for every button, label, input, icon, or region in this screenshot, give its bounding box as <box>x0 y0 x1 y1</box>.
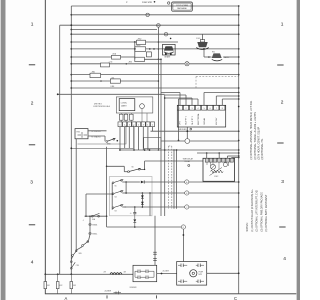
wire rung 2 <box>71 14 238 16</box>
junction on right bus <box>238 192 240 194</box>
svg-text:HS5: HS5 <box>77 131 80 133</box>
svg-text:2: 2 <box>152 125 153 127</box>
svg-text:1: 1 <box>133 125 134 127</box>
svg-text:FU3: FU3 <box>73 285 76 287</box>
wire rung 5 <box>71 29 157 31</box>
junction on left bus <box>70 41 72 43</box>
contact LS5A <box>112 55 121 59</box>
contact +HS4 <box>135 47 146 52</box>
wire relay t6 riser <box>227 156 229 158</box>
wire chain v1 <box>89 216 91 223</box>
junction on right bus <box>238 33 240 35</box>
svg-text:(1) OUTPUT DELAY (2 SECONDS): (1) OUTPUT DELAY (2 SECONDS) ALL <box>251 188 254 231</box>
junction on right bus <box>238 48 240 50</box>
svg-text:PUMP MTR: PUMP MTR <box>142 2 153 4</box>
junction on rung 150 <box>144 149 146 151</box>
terminal dot <box>170 38 172 40</box>
contact +HS2 <box>137 40 146 44</box>
junction <box>144 169 145 170</box>
wire motor link <box>157 273 177 275</box>
wire TB1 pin 6 drop <box>142 127 144 150</box>
zone tick dash left margin <box>29 144 35 146</box>
junction on right bus <box>238 130 240 132</box>
junction <box>142 206 144 208</box>
wire chain v4 <box>76 247 82 251</box>
junction on right bus <box>238 74 240 76</box>
wire riser x161 <box>160 59 162 216</box>
junction <box>206 152 208 154</box>
contact LS6 <box>110 79 120 83</box>
right page-edge shadow band (scan artifact) <box>297 0 300 300</box>
wire switch stack left link <box>111 183 113 210</box>
junction on right bus <box>238 87 240 89</box>
wire TB2 pin3 riser <box>191 98 193 105</box>
wire riser x164 <box>164 95 166 216</box>
wire rung 10b <box>110 63 185 65</box>
svg-text:2: 2 <box>138 125 139 127</box>
logic assy box U1 <box>119 99 135 111</box>
connector bubble 11 <box>164 32 168 36</box>
wire contact riser <box>154 216 156 265</box>
junction on right bus <box>238 63 240 65</box>
switch S3 <box>112 207 114 209</box>
junction on fuse bus <box>70 273 72 275</box>
svg-text:+HS3: +HS3 <box>128 61 132 63</box>
lamp DS1 <box>185 62 189 66</box>
svg-text:3: 3 <box>143 125 144 127</box>
svg-text:(4) OPTIONAL BATT. RESTRAINT: (4) OPTIONAL BATT. RESTRAINT <box>265 194 268 231</box>
node L1 left supply bus <box>70 6 72 274</box>
wire TB2 pin7 riser <box>215 96 217 105</box>
svg-text:8: 8 <box>222 108 223 110</box>
wire rung 12 <box>71 80 110 82</box>
wire TB2 bottom link <box>186 127 188 139</box>
relay HS5 <box>75 129 88 139</box>
module sub-enclosure <box>116 97 153 113</box>
switch chain S6N <box>75 250 77 252</box>
contact CR1 <box>147 52 152 57</box>
junction on right bus <box>238 24 240 26</box>
breaker SW6B2 <box>89 232 91 234</box>
svg-text:2: 2 <box>185 108 186 110</box>
svg-text:BRAKE: BRAKE <box>165 56 172 59</box>
svg-text:FU1: FU1 <box>47 285 50 287</box>
wire rung 10 <box>71 63 100 65</box>
wire motor internal <box>178 264 181 266</box>
svg-text:5: 5 <box>204 108 205 110</box>
svg-text:B: B <box>186 193 187 195</box>
junction on rung 150 <box>149 149 151 151</box>
svg-text:+HS4: +HS4 <box>136 45 140 47</box>
bottom margin tick <box>106 295 108 298</box>
switch S5 <box>112 182 114 184</box>
junction on fuse bus <box>57 273 59 275</box>
svg-text:6: 6 <box>210 108 211 110</box>
wire rung 4 <box>60 24 239 26</box>
junction <box>153 48 155 50</box>
junction on right bus <box>238 152 240 154</box>
svg-text:2: 2 <box>281 100 284 106</box>
wire rung 11b <box>101 74 239 76</box>
svg-text:4: 4 <box>283 256 286 262</box>
svg-text:21: 21 <box>157 25 159 27</box>
junction on left bus <box>70 87 72 89</box>
wire S5 rung <box>122 181 126 183</box>
junction <box>125 181 127 183</box>
diode D2 in SR66 <box>170 53 172 56</box>
svg-text:(1) OPTIONAL ANTENNA, HOUR MET: (1) OPTIONAL ANTENNA, HOUR METER, LIFT S… <box>250 100 253 159</box>
svg-text:24-GN/W: 24-GN/W <box>163 271 170 273</box>
wire rung 7b <box>146 41 179 43</box>
contactor contacts <box>137 270 139 274</box>
svg-text:3: 3 <box>192 108 193 110</box>
connector bubble D <box>181 225 185 229</box>
wire TB2 pin4 riser <box>197 99 199 105</box>
junction on right bus <box>238 14 240 16</box>
svg-text:ELECTRICAL: ELECTRICAL <box>197 113 200 124</box>
svg-text:2W-BW/W: 2W-BW/W <box>130 287 138 289</box>
svg-text:+LS4: +LS4 <box>109 61 113 63</box>
svg-text:4: 4 <box>198 108 199 110</box>
junction on left bus <box>70 56 72 58</box>
junction on right bus <box>238 95 240 97</box>
wire rung 14 <box>58 93 165 95</box>
svg-text:ML-P PT 1: ML-P PT 1 <box>186 116 188 125</box>
wire TB1 pin 5 drop <box>138 127 140 150</box>
switch chain S4A <box>91 215 93 217</box>
wire rung 140 <box>161 140 185 142</box>
wire S4 rung <box>122 192 126 194</box>
svg-text:+5: +5 <box>130 213 132 215</box>
junction on right bus <box>238 5 240 7</box>
svg-text:EXISTS MODULE A: EXISTS MODULE A <box>94 105 111 108</box>
svg-text:(2) OPTIONAL TRAVEL ALARM + LI: (2) OPTIONAL TRAVEL ALARM + LIGHTS <box>254 112 257 160</box>
wire horn3 feed <box>204 56 212 58</box>
switch C2N on left bus <box>70 261 72 263</box>
wire chain v3 <box>89 235 91 241</box>
left page-edge shadow bar (scan artifact) <box>1 0 5 300</box>
junction <box>218 152 220 154</box>
wire rung C <box>124 206 184 208</box>
svg-text:LS6: LS6 <box>111 77 114 79</box>
junction <box>158 59 160 61</box>
wire TB1 pin 2 drop <box>124 127 126 149</box>
svg-text:(2) OPTIONAL LIFT INTERRUPT, C: (2) OPTIONAL LIFT INTERRUPT, CH2 <box>256 190 259 232</box>
junction <box>158 149 160 151</box>
connector bubble C <box>185 205 189 209</box>
junction on right bus <box>238 155 240 157</box>
bottom margin tick <box>156 295 158 298</box>
svg-text:1: 1 <box>147 125 148 127</box>
switch chain S7A <box>87 241 89 243</box>
terminal dot <box>154 1 156 3</box>
inductor L3 choke <box>110 273 122 275</box>
zone tick dash left margin <box>29 64 35 66</box>
wire rung A b <box>144 181 184 183</box>
junction on right bus <box>238 157 240 159</box>
wire TB2 pin1 riser <box>179 93 181 106</box>
node L2 right supply bus <box>238 6 240 294</box>
resistor module R4 <box>124 114 128 120</box>
switch SW6 <box>106 141 108 143</box>
contact LS4 <box>101 63 110 67</box>
wire S6 out riser <box>140 168 145 170</box>
zone tick dash right margin <box>277 142 283 144</box>
svg-text:HS2: HS2 <box>212 52 215 54</box>
svg-text:S6: S6 <box>132 166 134 168</box>
terminal block TB2 body <box>177 105 225 127</box>
time delay relay box K2 <box>203 158 235 181</box>
svg-text:1: 1 <box>31 22 34 28</box>
wire horn1 drop <box>202 34 204 39</box>
svg-text:1: 1 <box>281 22 284 28</box>
junction on left bus <box>70 14 72 16</box>
fuse FU3 <box>70 274 72 281</box>
capacitor C1 column <box>134 207 136 212</box>
wire HS5 out b <box>88 135 105 137</box>
wire rung 6 <box>71 33 238 35</box>
svg-text:S4: S4 <box>115 196 117 198</box>
dashed optional boundary <box>168 146 170 209</box>
connector bubble K1 <box>140 104 145 109</box>
wire relay internals <box>206 162 208 165</box>
wire bubble D drop <box>182 229 184 261</box>
wire rung 10c <box>189 63 239 65</box>
motor M1 <box>190 270 197 277</box>
cold package outline box <box>172 2 193 11</box>
wire switch feed riser <box>85 194 87 216</box>
terminal strip TB1 row <box>118 122 122 127</box>
svg-text:4: 4 <box>31 260 34 266</box>
time delay relay terminals <box>205 158 208 162</box>
svg-text:COLD (OSM): COLD (OSM) <box>176 5 188 7</box>
svg-text:4HT/7RG: 4HT/7RG <box>94 103 102 105</box>
wire chain v5 <box>71 256 72 259</box>
wire link contact column <box>134 42 136 59</box>
svg-text:FU2: FU2 <box>60 285 63 287</box>
wire TB2 pin5 riser <box>203 93 205 106</box>
wire rung 13 LINE <box>71 87 238 89</box>
wire rung A c <box>189 181 239 183</box>
svg-text:S6N: S6N <box>79 253 82 255</box>
wire rung 9 <box>71 56 111 58</box>
potentiometer R1 <box>211 164 216 169</box>
wire rung 7 <box>71 41 136 43</box>
svg-text:S3: S3 <box>115 210 117 212</box>
svg-text:7: 7 <box>216 108 217 110</box>
contact RA2 <box>90 73 101 77</box>
optional gray enclosure <box>110 177 153 216</box>
wire rung 12b <box>120 80 158 82</box>
junction on right bus <box>238 98 240 100</box>
junction on right bus <box>238 206 240 208</box>
junction on right bus <box>238 92 240 94</box>
motor box contacts <box>180 264 182 268</box>
wire chain rung <box>85 215 107 217</box>
junction <box>158 41 160 43</box>
wire TB1 pin 3 drop <box>128 127 130 149</box>
junction on right bus <box>238 181 240 183</box>
wire HS5 out a <box>88 130 107 132</box>
svg-text:1: 1 <box>179 108 180 110</box>
svg-text:RELAY: RELAY <box>185 160 192 163</box>
fuse FU2 <box>57 274 59 281</box>
junction on right bus <box>238 56 240 58</box>
junction <box>158 80 160 82</box>
svg-text:7% TRUCKS: 7% TRUCKS <box>91 131 102 133</box>
svg-text:NL-P PT 2: NL-P PT 2 <box>192 116 194 125</box>
svg-text:GROUND: GROUND <box>179 129 188 131</box>
junction <box>134 206 136 208</box>
wire TB1 pin 7 drop <box>147 127 149 150</box>
alarm horn H2 <box>164 46 174 50</box>
brake alarm box SR66 <box>163 44 176 55</box>
resistor module R3 <box>119 114 123 120</box>
wire rung horn3 <box>224 56 239 58</box>
junction <box>133 149 135 151</box>
svg-text:C: C <box>234 296 237 300</box>
junction <box>119 149 121 151</box>
svg-text:SW6B1: SW6B1 <box>92 225 97 227</box>
wire module drop <box>106 147 108 227</box>
node left branch vertical <box>59 25 61 274</box>
contact pair on riser <box>153 251 157 253</box>
svg-text:LOGIC: LOGIC <box>121 102 128 104</box>
module enclosure inner box <box>78 126 127 145</box>
svg-text:3: 3 <box>129 125 130 127</box>
wire relay t4 riser <box>218 153 220 158</box>
wire S6 feed <box>107 165 125 167</box>
svg-text:SW6B+: SW6B+ <box>92 234 97 236</box>
junction on left bus <box>70 29 72 31</box>
wire over relay <box>197 152 239 154</box>
alarm horn H1 <box>200 40 204 42</box>
svg-text:(3) OPTIONAL PWB,DRY PACKAGE: (3) OPTIONAL PWB,DRY PACKAGE <box>260 192 263 232</box>
dashed optional wire <box>196 76 239 78</box>
svg-text:3: 3 <box>281 179 284 185</box>
wire rung 9c <box>144 58 161 60</box>
wire rung C c <box>189 206 239 208</box>
wire fuse bus <box>45 273 133 275</box>
travel alarm horn H3 <box>212 53 222 58</box>
svg-text:11: 11 <box>165 34 167 36</box>
connector bubble <box>168 2 170 4</box>
junction <box>125 192 127 194</box>
fuse FU1 <box>44 274 46 281</box>
junction on left bus <box>70 74 72 76</box>
motor box K4 <box>177 262 207 286</box>
relay coil circle <box>223 163 227 167</box>
junction on right bus <box>238 149 240 151</box>
connector bubble 21 <box>157 24 161 28</box>
svg-text:24-BN/W: 24-BN/W <box>105 290 112 292</box>
junction on left bus <box>70 48 72 50</box>
svg-text:NOTES:: NOTES: <box>246 222 249 231</box>
svg-text:(4) OPTIONAL HS.: (4) OPTIONAL HS. <box>261 138 264 159</box>
wire S3 rung <box>122 206 126 208</box>
junction on right bus <box>238 106 240 108</box>
wire rung 150 <box>120 149 239 151</box>
terminal dot <box>117 140 119 142</box>
diode D1 in SR66 <box>165 53 167 56</box>
connector bubble on rung 2 <box>146 13 149 16</box>
switch S4 <box>112 193 114 195</box>
svg-text:2: 2 <box>124 125 125 127</box>
junction on fuse bus <box>44 273 46 275</box>
wire riser x176 <box>176 150 178 209</box>
svg-text:3: 3 <box>30 180 33 186</box>
junction <box>149 48 151 50</box>
wire rung B <box>126 192 185 194</box>
junction <box>134 48 136 50</box>
svg-text:4: 4 <box>83 220 84 222</box>
svg-text:+HS2: +HS2 <box>137 39 141 41</box>
junction on left bus <box>70 63 72 65</box>
wire relay t1 riser <box>206 153 208 158</box>
wire riser x158 <box>157 27 159 150</box>
zone tick dash right margin <box>279 226 285 228</box>
wire TB1 pin 4 drop <box>133 127 135 150</box>
wire riser x174 <box>173 150 175 209</box>
wire rung 11 <box>71 74 90 76</box>
wire chain v2 <box>89 226 91 233</box>
svg-text:1: 1 <box>120 125 121 127</box>
connector bubble B <box>185 191 189 195</box>
terminal block TB2 header <box>177 105 182 110</box>
connector bubble A <box>185 180 189 184</box>
junction <box>158 48 160 50</box>
zone tick dash right margin <box>277 64 283 66</box>
wire TB2 pin8 riser <box>221 99 223 105</box>
wire switch feed rung <box>86 193 112 195</box>
junction on right bus <box>238 140 240 142</box>
switch S6 <box>128 171 130 173</box>
wire rung 8 <box>71 48 134 50</box>
resistor R2 <box>211 170 224 173</box>
wire top rail <box>71 5 238 7</box>
svg-text:S5: S5 <box>115 185 117 187</box>
wire rung 9b <box>121 56 135 58</box>
svg-text:PUMP: PUMP <box>199 271 204 273</box>
svg-text:SIGNAL: SIGNAL <box>203 118 206 125</box>
wire riser x178 <box>178 99 180 141</box>
contactor box K3 <box>133 265 157 281</box>
pot wiper arrow <box>210 168 223 176</box>
svg-text:2: 2 <box>31 101 34 107</box>
junction <box>134 41 136 43</box>
junction <box>142 192 144 194</box>
wire motor out <box>207 272 239 274</box>
wire rung A <box>126 181 140 183</box>
junction on left bus <box>70 33 72 35</box>
wire TB2 pin2 riser <box>185 95 187 105</box>
wire link A-B <box>125 182 127 193</box>
module enclosure outer wire <box>71 126 133 149</box>
wire bubble K1 drop <box>141 109 143 122</box>
svg-text:48V 24V: 48V 24V <box>216 117 218 125</box>
svg-text:PACKAGE: PACKAGE <box>177 7 187 10</box>
wire module stubs <box>120 113 122 114</box>
svg-text:A: A <box>65 296 68 300</box>
wire TB1 pin 1 drop <box>119 127 121 150</box>
wire HS5 drop <box>75 139 77 250</box>
junction on left bus <box>70 80 72 82</box>
svg-text:ASSY: ASSY <box>121 105 127 108</box>
wire rung 8b <box>146 48 239 50</box>
aux enclosure <box>144 138 161 149</box>
wire relay t7 riser <box>231 157 233 160</box>
terminal dot <box>208 56 210 58</box>
